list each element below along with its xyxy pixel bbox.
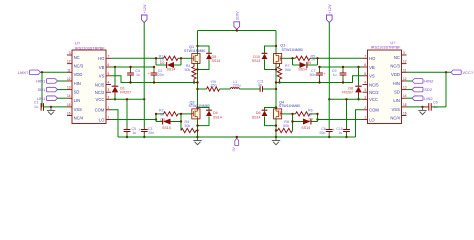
svg-text:VDD: VDD [74, 72, 83, 77]
svg-text:SS14: SS14 [252, 115, 261, 119]
svg-text:LIN2: LIN2 [424, 96, 433, 101]
svg-text:3: 3 [69, 51, 71, 55]
svg-text:NC/2: NC/2 [369, 90, 379, 95]
svg-text:1: 1 [364, 116, 366, 120]
svg-text:7: 7 [364, 54, 366, 58]
svg-text:SS14: SS14 [162, 126, 171, 130]
svg-text:HIN: HIN [393, 81, 400, 86]
svg-text:D9: D9 [307, 61, 312, 65]
svg-text:C1: C1 [34, 101, 39, 105]
svg-text:VSS: VSS [392, 107, 401, 112]
svg-text:STW11NM80: STW11NM80 [282, 48, 303, 52]
svg-text:10: 10 [308, 112, 312, 116]
svg-text:1u: 1u [132, 131, 136, 135]
svg-text:1u: 1u [333, 73, 337, 77]
svg-text:16: 16 [403, 112, 407, 116]
svg-text:20n: 20n [158, 73, 164, 77]
svg-text:14: 14 [403, 94, 407, 98]
svg-text:50n: 50n [310, 73, 316, 77]
svg-text:+: + [148, 72, 150, 76]
svg-text:NC: NC [394, 55, 400, 60]
svg-text:U?: U? [75, 41, 81, 46]
svg-text:1: 1 [108, 116, 110, 120]
svg-text:2: 2 [108, 106, 110, 110]
svg-text:D7: D7 [309, 118, 314, 122]
svg-text:SS14: SS14 [301, 126, 310, 130]
svg-text:12: 12 [403, 77, 407, 81]
svg-text:220u: 220u [233, 83, 241, 87]
svg-text:SD2: SD2 [424, 87, 433, 92]
svg-text:3: 3 [108, 88, 110, 92]
svg-text:50k: 50k [285, 68, 291, 72]
svg-text:VS: VS [369, 74, 375, 79]
svg-text:13: 13 [403, 86, 407, 90]
svg-text:NC/4: NC/4 [74, 116, 84, 121]
svg-text:14: 14 [67, 94, 71, 98]
svg-text:STW11NM80: STW11NM80 [189, 104, 210, 108]
svg-text:NC/4: NC/4 [390, 116, 400, 121]
svg-text:3: 3 [108, 95, 110, 99]
svg-text:50k: 50k [283, 124, 289, 128]
svg-text:6: 6 [108, 63, 110, 67]
svg-text:COM: COM [369, 108, 379, 113]
svg-text:11: 11 [403, 68, 407, 72]
svg-text:1u: 1u [34, 105, 38, 109]
svg-text:10: 10 [160, 112, 164, 116]
svg-text:20n: 20n [148, 131, 154, 135]
svg-text:SS14: SS14 [298, 67, 307, 71]
svg-text:15: 15 [67, 103, 71, 107]
svg-text:4: 4 [108, 81, 110, 85]
svg-text:5n: 5n [258, 83, 262, 87]
svg-text:STW11NM80: STW11NM80 [279, 104, 300, 108]
svg-text:SD: SD [74, 90, 80, 95]
svg-text:SD1: SD1 [38, 87, 47, 92]
svg-text:LO: LO [369, 117, 375, 122]
svg-text:VDD: VDD [391, 72, 400, 77]
svg-text:7: 7 [108, 54, 110, 58]
svg-text:+12V: +12V [143, 4, 147, 13]
svg-text:20n: 20n [319, 131, 325, 135]
svg-text:16: 16 [67, 112, 71, 116]
svg-text:HIN2: HIN2 [424, 79, 434, 84]
svg-text:5: 5 [108, 72, 110, 76]
svg-text:IRS2103STRPBF: IRS2103STRPBF [371, 46, 401, 50]
svg-text:15: 15 [403, 103, 407, 107]
svg-text:3: 3 [403, 51, 405, 55]
svg-text:4: 4 [364, 81, 366, 85]
svg-text:HO: HO [369, 56, 376, 61]
svg-text:3: 3 [364, 95, 366, 99]
svg-text:10: 10 [311, 58, 315, 62]
svg-text:LIN1: LIN1 [37, 96, 46, 101]
svg-text:1u: 1u [136, 73, 140, 77]
svg-text:5: 5 [364, 72, 366, 76]
svg-text:12: 12 [403, 60, 407, 64]
svg-text:U?: U? [390, 40, 396, 45]
svg-text:13: 13 [67, 86, 71, 90]
svg-text:COM: COM [95, 108, 105, 113]
svg-text:IRS2103STRPBF: IRS2103STRPBF [75, 46, 105, 50]
svg-text:NC/2: NC/2 [95, 90, 105, 95]
svg-text:VSS: VSS [74, 107, 83, 112]
svg-text:NC/3: NC/3 [390, 64, 400, 69]
svg-text:HO: HO [98, 56, 105, 61]
svg-text:HIN: HIN [74, 81, 81, 86]
svg-text:Q1: Q1 [189, 45, 194, 49]
svg-text:LO: LO [99, 117, 105, 122]
svg-text:STW11NM80: STW11NM80 [184, 49, 205, 53]
svg-text:1u: 1u [338, 131, 342, 135]
svg-text:VB: VB [369, 65, 375, 70]
svg-text:D3: D3 [160, 118, 165, 122]
svg-text:VCC: VCC [369, 97, 378, 102]
svg-text:FR207: FR207 [120, 90, 131, 94]
svg-text:6: 6 [364, 63, 366, 67]
svg-text:0V: 0V [232, 146, 236, 151]
svg-text:SS14: SS14 [167, 67, 176, 71]
svg-text:12: 12 [67, 60, 71, 64]
svg-text:LMX?: LMX? [18, 70, 29, 75]
svg-text:1u: 1u [434, 105, 438, 109]
svg-text:+12V: +12V [328, 4, 332, 13]
svg-text:NC/5: NC/5 [95, 82, 105, 87]
svg-text:+: + [333, 128, 335, 132]
svg-text:NC/3: NC/3 [74, 64, 84, 69]
svg-text:310V: 310V [236, 11, 240, 20]
svg-text:50k: 50k [185, 124, 191, 128]
svg-text:2: 2 [364, 106, 366, 110]
svg-text:LIN: LIN [393, 98, 400, 103]
svg-text:250: 250 [211, 83, 217, 87]
svg-text:C6: C6 [433, 101, 438, 105]
svg-text:VB: VB [99, 65, 105, 70]
svg-text:HIN1: HIN1 [36, 79, 46, 84]
svg-text:NC: NC [74, 55, 80, 60]
svg-text:VCC: VCC [96, 97, 105, 102]
svg-text:+: + [324, 72, 326, 76]
svg-text:11: 11 [67, 68, 71, 72]
svg-text:FR207: FR207 [342, 90, 353, 94]
svg-text:D2: D2 [160, 61, 165, 65]
svg-text:SS14: SS14 [213, 115, 222, 119]
svg-text:VS: VS [99, 74, 105, 79]
svg-text:SS14: SS14 [252, 59, 261, 63]
svg-text:SD: SD [394, 90, 400, 95]
svg-text:SS14: SS14 [212, 59, 221, 63]
svg-text:LIN: LIN [74, 98, 81, 103]
svg-text:+: + [139, 128, 141, 132]
svg-text:50k: 50k [185, 68, 191, 72]
svg-text:VCC?: VCC? [462, 70, 473, 75]
svg-text:12: 12 [67, 77, 71, 81]
svg-text:NC/5: NC/5 [369, 82, 379, 87]
svg-text:3: 3 [364, 88, 366, 92]
